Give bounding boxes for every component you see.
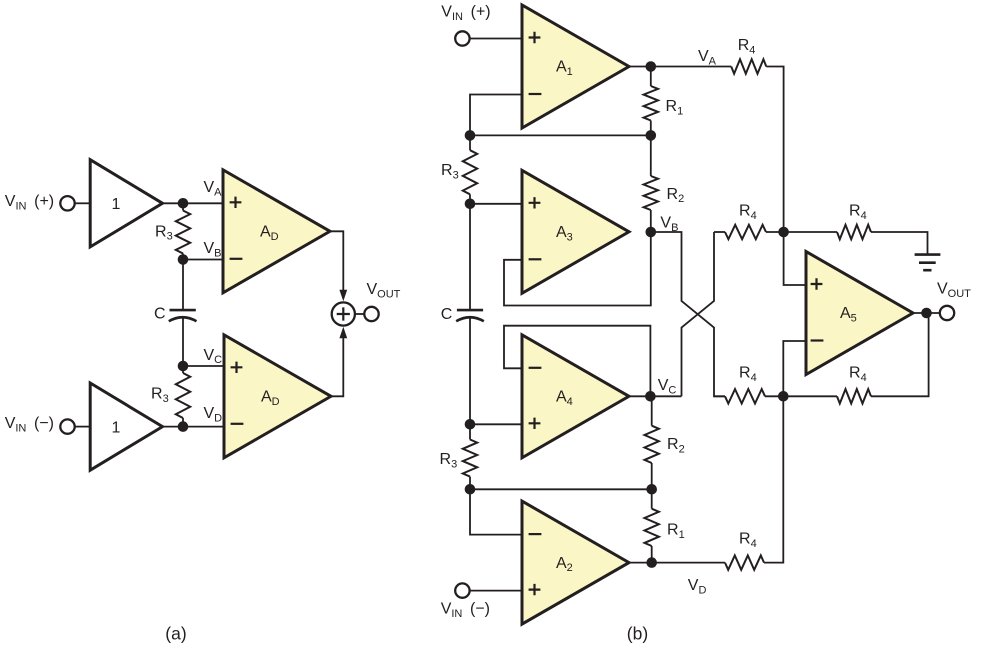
output terminal VOUT (a): [364, 307, 378, 321]
svg-text:R4: R4: [739, 202, 757, 221]
node J2 (R1/R2 junction top): [646, 130, 657, 141]
svg-text:VC: VC: [204, 347, 223, 366]
svg-text:R3: R3: [151, 386, 169, 405]
node VA (a): [178, 198, 189, 209]
svg-text:(b): (b): [627, 624, 648, 644]
svg-text:R3: R3: [441, 162, 459, 181]
resistor R4 (top row): [731, 59, 766, 73]
arrowhead into summer (bottom): [339, 327, 347, 338]
input terminal VIN(-) (a): [60, 419, 74, 433]
wire A2- feedback to J5: [470, 489, 522, 534]
summing junction (a): [332, 302, 355, 325]
node VB (b): [646, 227, 657, 238]
resistor R4 (mid upper): [714, 231, 725, 233]
wire AD top output down to summer: [330, 231, 343, 293]
capacitor C (b): [457, 309, 483, 312]
node VD (b): [646, 557, 657, 568]
wire VB to AD- (a): [183, 259, 223, 261]
node J8 (A5- junction): [778, 391, 789, 402]
svg-text:C: C: [441, 306, 453, 323]
crossover wire VB to lower R4: [651, 232, 725, 396]
input terminal VIN(+) (a): [60, 196, 74, 210]
svg-text:R4: R4: [738, 37, 756, 56]
wire VB down to capacitor (a): [182, 260, 184, 310]
resistor R1 (bottom): [651, 489, 653, 508]
A4 feedback wire (VC to A4-): [504, 326, 650, 397]
crossover wire upper R4 to VC: [682, 232, 715, 396]
wire J3 down to capacitor (b): [469, 204, 471, 309]
wire capacitor to J4 (b): [469, 318, 471, 425]
wire J5 to J6 (long horizontal): [470, 488, 652, 490]
svg-text:VD: VD: [688, 577, 707, 596]
wire capacitor to VC (a): [182, 318, 184, 366]
node VC (b): [645, 391, 656, 402]
node VA (b): [646, 61, 657, 72]
svg-text:R4: R4: [739, 531, 757, 550]
wire J4 to A4+: [470, 423, 522, 425]
node VC (a): [178, 361, 189, 372]
svg-text:VIN (+): VIN (+): [5, 193, 54, 212]
resistor R3 (a top): [182, 203, 184, 210]
resistor R4 (A5 feedback): [783, 395, 837, 397]
wire J3 to A3+: [470, 203, 522, 205]
svg-text:VIN (+): VIN (+): [441, 4, 490, 23]
svg-text:VIN (−): VIN (−): [441, 601, 490, 620]
input terminal VIN(-) (b): [455, 583, 469, 597]
svg-text:1: 1: [112, 196, 121, 213]
svg-text:C: C: [154, 306, 166, 323]
op-amp A1: [522, 5, 629, 128]
node J4 (A4+ junction): [465, 419, 476, 430]
arrowhead into summer (top): [339, 290, 347, 301]
svg-text:VOUT: VOUT: [367, 281, 401, 300]
node J3 (A3+ junction): [465, 199, 476, 210]
wire J1 to J2 (long horizontal): [470, 134, 651, 136]
wire VIN(+) to A1+: [470, 38, 522, 40]
svg-text:VA: VA: [204, 179, 223, 198]
op-amp A3: [522, 170, 629, 293]
resistor R3 (a bottom): [182, 366, 184, 373]
A3 feedback wire (VB to A3-): [504, 232, 651, 306]
wire buffer out to AD+ (node VA row): [163, 202, 224, 204]
wire buffer out to AD- (node VD row): [163, 426, 225, 428]
svg-text:VD: VD: [204, 405, 223, 424]
ground: [915, 253, 941, 256]
svg-text:VIN (−): VIN (−): [5, 415, 54, 434]
node J1 (A1- junction): [465, 130, 476, 141]
wire A4 output VC row: [629, 395, 682, 397]
resistor R2 (top): [650, 135, 652, 176]
op-amp A5: [806, 252, 913, 375]
resistor R1 (top): [650, 67, 652, 87]
svg-text:VOUT: VOUT: [937, 280, 971, 299]
wire A1- feedback to node J1: [470, 95, 522, 136]
node J6 (R1/R2 junction bottom): [646, 484, 657, 495]
op-amp A2: [522, 501, 629, 624]
buffer 1 (bottom, a): [90, 383, 162, 470]
wire A1 output VA row: [629, 66, 731, 68]
wire A5 output: [913, 312, 940, 314]
op-amp AD (top, a): [223, 170, 330, 293]
resistor R4 (bottom row): [725, 555, 764, 569]
op-amp AD (bottom, a): [224, 335, 331, 458]
node VOUT (b): [921, 308, 932, 319]
resistor R2 (bottom): [651, 396, 653, 425]
wire summer to output terminal (a): [355, 313, 364, 315]
wire VIN(-) to buffer (a): [75, 426, 91, 428]
svg-text:VC: VC: [658, 377, 677, 396]
wire AD bottom output up to summer: [330, 335, 343, 396]
resistor R4 (mid lower): [714, 395, 725, 397]
node VB (a): [178, 254, 189, 265]
svg-text:R4: R4: [849, 365, 867, 384]
output terminal VOUT (b): [940, 306, 954, 320]
svg-text:R3: R3: [155, 223, 173, 242]
buffer 1 (top, a): [90, 160, 162, 247]
svg-text:R2: R2: [667, 186, 685, 205]
svg-text:R3: R3: [440, 451, 458, 470]
node J7 (A5+ junction): [778, 227, 789, 238]
resistor R3 (b top): [469, 135, 471, 150]
wire VIN(+) to buffer (a): [75, 202, 91, 204]
wire A2 output VD row: [629, 562, 725, 564]
input terminal VIN(+) (b): [455, 31, 469, 45]
node J5 (A2- junction): [465, 484, 476, 495]
svg-text:R1: R1: [666, 98, 684, 117]
resistor R4 (to ground): [784, 231, 837, 233]
op-amp A4: [522, 335, 629, 458]
wire J7 to A5+: [784, 232, 806, 285]
capacitor C (a): [170, 309, 196, 312]
node VD (a): [178, 421, 189, 432]
resistor R3 (b bottom): [469, 424, 471, 439]
wire VIN(-) to A2+: [470, 590, 522, 592]
svg-text:R4: R4: [739, 365, 757, 384]
svg-text:R1: R1: [667, 522, 685, 541]
svg-text:R4: R4: [849, 202, 867, 221]
svg-text:VB: VB: [204, 240, 222, 259]
svg-text:VA: VA: [698, 48, 717, 67]
svg-text:R2: R2: [667, 436, 685, 455]
wire VC to AD+ (a bottom): [183, 365, 224, 367]
svg-text:(a): (a): [165, 624, 186, 644]
wire J8 to A5-: [783, 341, 806, 396]
svg-text:1: 1: [112, 419, 121, 436]
